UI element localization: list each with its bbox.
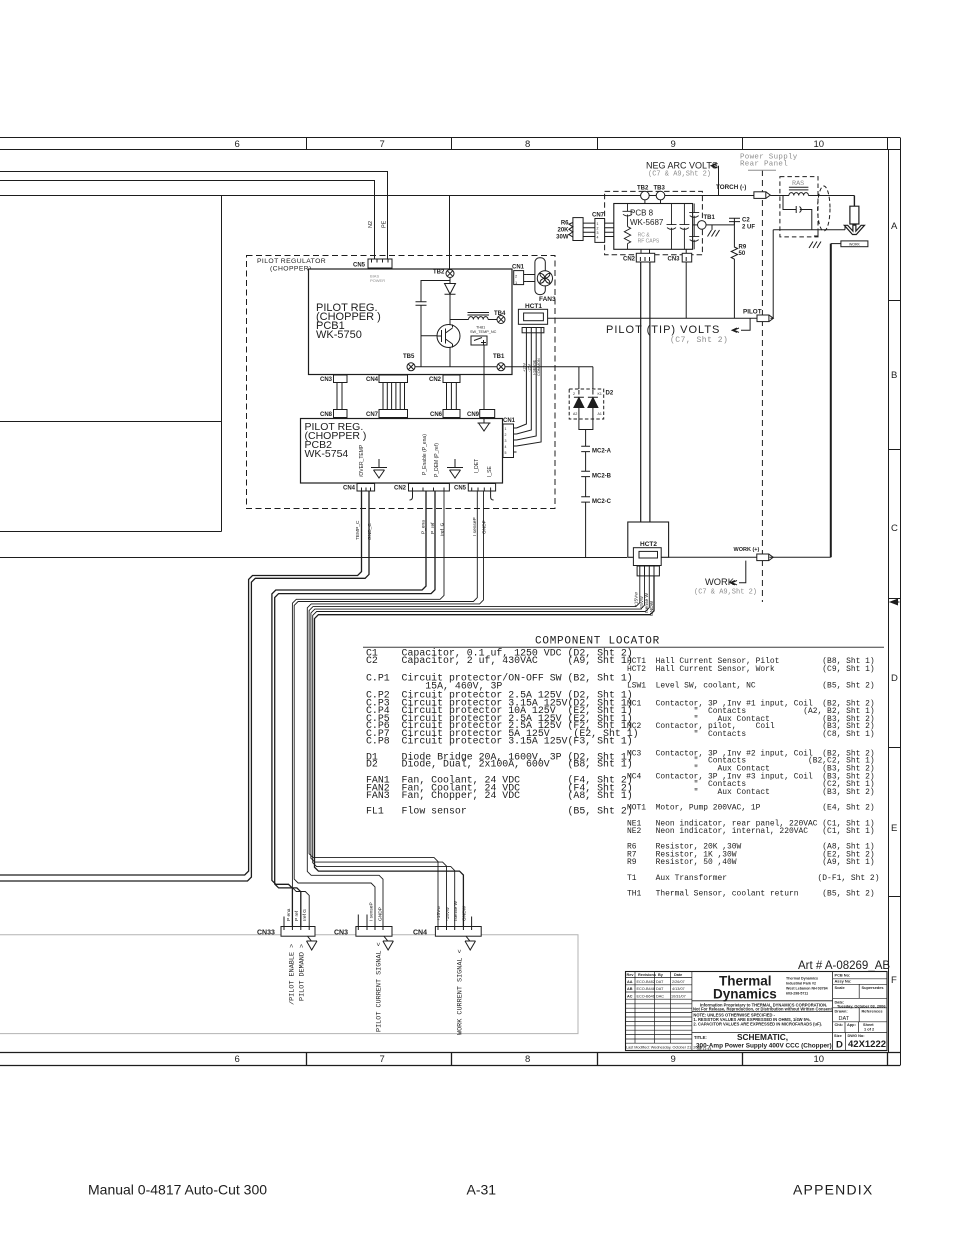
svg-text:10: 10 [814, 1054, 825, 1065]
frame: top zone strip [0, 138, 900, 150]
IGBT Q on PCB1 [437, 294, 469, 367]
svg-text:2/26/07: 2/26/07 [672, 980, 685, 984]
wire: pilot rail from HCT1 to rear panel [548, 317, 774, 319]
svg-text:9: 9 [671, 1054, 676, 1065]
terminal TB3 (PCB8) [656, 191, 665, 203]
zone numbers top [235, 139, 825, 150]
svg-text:Iref_G: Iref_G [440, 522, 446, 536]
svg-text:A: A [891, 221, 898, 232]
svg-text:WORK: WORK [849, 243, 861, 247]
svg-text:+15Vw: +15Vw [634, 592, 640, 607]
wire P_ref staircase to CN33 pin3 [275, 491, 435, 927]
svg-text:References: References [862, 1009, 883, 1014]
diode D2 (dual) dashed box [569, 389, 604, 419]
svg-text:ECO-B646: ECO-B646 [637, 995, 655, 999]
svg-text:TB2: TB2 [433, 270, 445, 276]
wire P_ena staircase to CN33 pin2 [272, 491, 426, 927]
wire: tip line to torch tip [844, 225, 846, 229]
svg-text:Assy No:: Assy No: [835, 979, 852, 984]
wire: TB5-TB1 bottom rail [415, 366, 593, 368]
svg-text:+15V: +15V [523, 363, 527, 372]
svg-text:2: 2 [505, 433, 507, 437]
svg-text:CN1: CN1 [503, 418, 516, 424]
svg-text:WORK CURRENT SIGNAL <: WORK CURRENT SIGNAL < [457, 949, 465, 1035]
svg-text:PILOT REGULATOR: PILOT REGULATOR [257, 258, 326, 265]
svg-text:3: 3 [505, 439, 507, 443]
svg-text:App:: App: [847, 1022, 856, 1027]
svg-text:WK-5750: WK-5750 [316, 329, 362, 341]
svg-text:B: B [891, 370, 897, 381]
svg-text:SW_TEMP_NC: SW_TEMP_NC [470, 330, 497, 334]
svg-text:RF CAPS: RF CAPS [638, 239, 660, 245]
svg-text:CN4: CN4 [413, 930, 427, 937]
svg-text:GND_C: GND_C [367, 523, 373, 540]
frame: right border columns [889, 138, 901, 1066]
svg-text:P_Enable (P_ena): P_Enable (P_ena) [422, 434, 428, 475]
svg-text:P ref: P ref [294, 910, 300, 921]
svg-text:2: 2 [573, 392, 575, 396]
svg-text:1: 1 [597, 222, 599, 226]
title block revisions table [626, 972, 692, 1051]
svg-text:Manual 0-4817 Auto-Cut 300: Manual 0-4817 Auto-Cut 300 [88, 1182, 267, 1198]
svg-text:CN2: CN2 [623, 257, 636, 263]
inductor in RAS [789, 187, 855, 195]
capacitor branch 4 (right edge) inside PCB8 [689, 204, 699, 250]
contact MC2-C [581, 497, 590, 558]
wire: work rail y557 from off-page left [0, 557, 627, 559]
node: big left box (off-page circuitry) [0, 196, 222, 532]
svg-text:CN2: CN2 [429, 377, 442, 383]
svg-text:Dynamics: Dynamics [713, 987, 777, 1002]
resistor R6 20K 30W [569, 218, 595, 241]
svg-text:PILOT CURRENT SIGNAL <: PILOT CURRENT SIGNAL < [376, 942, 384, 1032]
svg-text:CN5: CN5 [454, 486, 467, 492]
wire PE: left rail to CN5 [0, 172, 388, 260]
fan FAN3 [534, 258, 555, 295]
rear panel boundary (dashed) [761, 170, 763, 602]
svg-text:6: 6 [235, 139, 240, 150]
ground stub on tip line [809, 230, 821, 248]
svg-text:C2: C2 [742, 218, 750, 224]
wire Iref_G staircase to CN33 pin4 [292, 491, 444, 927]
wire: RAS bottom rail (pilot/tip) [773, 230, 845, 319]
wire +15Vw fold-around HCT2 to CN4 pin1 [309, 576, 640, 927]
svg-text:AA: AA [627, 980, 633, 984]
ground arrow below CN3 [383, 936, 394, 950]
svg-text:WORK (+): WORK (+) [734, 547, 760, 553]
wire: torch rail into RAS [770, 195, 789, 197]
wire: rail tap down to TB2 of PCB1 [449, 196, 451, 270]
zone letters right [891, 221, 898, 986]
ground arrow PCB2 left [371, 459, 387, 478]
svg-text:CN7: CN7 [592, 213, 605, 219]
wire: CN3 (PCB8) to pilot rail [685, 262, 687, 318]
svg-text:CN9: CN9 [467, 412, 480, 418]
svg-text:50: 50 [739, 251, 746, 257]
svg-text:PILOT (TIP) VOLTS: PILOT (TIP) VOLTS [606, 324, 720, 336]
svg-text:N2: N2 [368, 221, 374, 228]
terminal TB2 on PCB1 [446, 270, 454, 278]
svg-text:CN6: CN6 [430, 412, 443, 418]
connector CN7 PCB2 top [379, 410, 408, 418]
svg-text:P ena: P ena [286, 908, 292, 921]
svg-text:COMPONENT LOCATOR: COMPONENT LOCATOR [535, 636, 660, 648]
wires: TB1 rail taps down to D2 [579, 367, 593, 390]
svg-text:7: 7 [380, 139, 385, 150]
svg-text:CN2: CN2 [394, 486, 407, 492]
wire I_senseP fold-around to CN3 pin3 [294, 491, 477, 927]
svg-text:-15V: -15V [527, 364, 531, 372]
ground arrow below CN9 [478, 418, 491, 432]
svg-text:F: F [891, 975, 897, 986]
svg-text:(C7 & A9,Sht 2): (C7 & A9,Sht 2) [648, 171, 711, 179]
svg-text:E: E [891, 823, 897, 834]
svg-text:4: 4 [597, 236, 599, 240]
ground arrow below CN4 [465, 936, 476, 950]
zone numbers bottom [235, 1054, 825, 1065]
connector CN2 PCB1 bottom [443, 375, 460, 410]
svg-text:Thermal Dynamics: Thermal Dynamics [786, 977, 818, 981]
title block middle dividers [692, 972, 887, 1051]
svg-text:MC2-A: MC2-A [592, 449, 612, 455]
connector CN9 PCB2 top [480, 410, 495, 418]
ferrite ellipse (cable) [818, 186, 830, 231]
connector CN4 PCB2 bottom [357, 484, 375, 492]
connector CN5 on PCB1 top [368, 259, 392, 268]
svg-text:Last Modified: Wednesday, Oct: Last Modified: Wednesday, October 21, 20… [626, 1046, 702, 1050]
connector CN2 (PCB8 bottom) [636, 249, 654, 262]
svg-text:6: 6 [235, 1054, 240, 1065]
svg-text:GNDP: GNDP [378, 907, 384, 921]
svg-text:PILOT DEMAND >: PILOT DEMAND > [299, 944, 307, 1001]
wire Isense_W fold-around HCT2 to CN4 pin3 [313, 576, 650, 927]
svg-text:(C7, Sht 2): (C7, Sht 2) [670, 336, 728, 345]
svg-text:CN33: CN33 [257, 930, 275, 937]
svg-text:-15Vw: -15Vw [445, 907, 451, 921]
svg-text:Chk:: Chk: [835, 1022, 844, 1027]
svg-text:R9: R9 [739, 245, 747, 251]
svg-text:GNDW: GNDW [462, 905, 468, 921]
diode on PCB1 (TB2 branch) [445, 278, 456, 328]
svg-text:A2: A2 [573, 412, 577, 416]
hall sensor HCT1 [518, 309, 547, 333]
svg-text:P_DEM (P_ref): P_DEM (P_ref) [434, 443, 440, 477]
svg-text:300-Amp Power Supply 400V CCC: 300-Amp Power Supply 400V CCC (Chopper) [696, 1042, 832, 1049]
svg-text:AB: AB [627, 987, 633, 991]
svg-text:CN3: CN3 [320, 377, 333, 383]
svg-text:AC: AC [627, 995, 633, 999]
connector CN2 PCB2 bottom [409, 484, 450, 501]
wire: main torch(-) rail y195 [0, 195, 754, 197]
svg-text:3: 3 [597, 231, 599, 235]
svg-text:DAT: DAT [656, 980, 664, 984]
svg-text:TH81: TH81 [476, 326, 485, 330]
wire: TB1 to C2 branch [706, 224, 734, 226]
svg-text:Isense W: Isense W [453, 901, 459, 921]
svg-text:Scale: Scale [835, 985, 846, 990]
svg-text:PE: PE [382, 220, 388, 228]
svg-text:WK-5754: WK-5754 [305, 448, 349, 460]
svg-text:5: 5 [505, 451, 507, 455]
svg-text:Rear Panel: Rear Panel [740, 161, 788, 169]
svg-text:MC2-C: MC2-C [592, 499, 612, 505]
svg-text:NEG ARC VOLTS: NEG ARC VOLTS [646, 161, 718, 171]
svg-text:10: 10 [814, 139, 825, 150]
svg-text:30W: 30W [556, 235, 569, 241]
svg-text:(CHOPPER): (CHOPPER) [270, 266, 312, 273]
svg-text:Drawn:: Drawn: [835, 1009, 848, 1014]
svg-text:ECO-B448: ECO-B448 [637, 987, 655, 991]
connector CN3 (panel) [356, 915, 392, 937]
svg-text:4: 4 [505, 445, 507, 449]
wire GND_C (bold staircase, exits left) [0, 491, 369, 881]
svg-text:WORK: WORK [705, 577, 735, 587]
svg-text:Iref G: Iref G [302, 909, 308, 921]
terminal TB1 (PCB8) [692, 221, 706, 230]
inductor L on PCB1 [468, 313, 498, 320]
wire GNDP fold-around to CN3 pin4 [307, 491, 483, 927]
svg-text:D: D [836, 1039, 843, 1050]
terminal TB5 [407, 363, 415, 371]
connector CN3 PCB1 bottom [334, 375, 348, 410]
svg-text:TB1: TB1 [704, 215, 716, 221]
feedthrough PILOT [757, 315, 773, 322]
contact MC2-B [581, 471, 590, 496]
svg-text:PCB No:: PCB No: [835, 973, 851, 978]
svg-text:A-31: A-31 [467, 1182, 497, 1198]
svg-text:603-298-5711: 603-298-5711 [786, 992, 808, 996]
PCB1 WK-5750 board [309, 269, 513, 375]
svg-text:TB5: TB5 [403, 354, 415, 360]
connector CN5 PCB2 bottom [468, 484, 495, 501]
svg-text:TB3: TB3 [654, 186, 666, 192]
svg-text:Revisions: Revisions [638, 973, 656, 977]
wire: work stud vertical (bold) [830, 244, 832, 558]
wire -15Vw fold-around HCT2 to CN4 pin2 [311, 576, 645, 927]
gate capacitor on PCB1 [416, 281, 451, 367]
title block frame [626, 972, 888, 1051]
capacitor branch 3 inside PCB8 [679, 204, 689, 250]
ground at TB1 [708, 225, 720, 237]
ground arrow below CN33 [307, 936, 318, 950]
svg-text:COMMON: COMMON [537, 358, 541, 376]
connector CN4 (panel) [435, 917, 481, 937]
svg-text:TB2: TB2 [637, 186, 649, 192]
svg-text:1 of 2: 1 of 2 [864, 1027, 875, 1032]
svg-text:/PILOT ENABLE >: /PILOT ENABLE > [289, 944, 297, 1005]
ground arrow PCB2 mid [447, 459, 463, 478]
svg-text:Art # A-08269_AB: Art # A-08269_AB [798, 960, 890, 972]
svg-text:PILOT: PILOT [743, 309, 762, 316]
svg-text:D: D [891, 673, 898, 684]
svg-text:DAT: DAT [839, 1016, 850, 1022]
svg-text:(C7 & A9,Sht 2): (C7 & A9,Sht 2) [694, 589, 757, 597]
svg-text:I_DET: I_DET [474, 459, 480, 473]
hall sensor HCT2 [628, 522, 669, 557]
svg-text:TB4: TB4 [494, 311, 506, 317]
svg-text:CN5: CN5 [353, 263, 366, 269]
torch electrode symbol [844, 206, 864, 234]
feedthrough TORCH [754, 192, 770, 199]
filter RAS dashed box [780, 177, 818, 237]
connector CN7 (PCB8 left) [595, 219, 614, 243]
work lead plate [831, 241, 868, 247]
PCB8 WK-5687 board [614, 204, 693, 250]
wire TEMP_C (bold staircase, exits left) [0, 491, 362, 875]
feedthrough WORK (+) [757, 554, 773, 561]
svg-text:CN1: CN1 [512, 265, 525, 271]
wires CN1 to FAN3 [527, 275, 535, 282]
wires HCT1 to CN1 PCB2 [517, 333, 542, 446]
svg-text:20K: 20K [557, 228, 569, 234]
svg-text:CN4: CN4 [366, 377, 379, 383]
svg-text:Date: Date [674, 973, 682, 977]
svg-text:CN8: CN8 [320, 412, 333, 418]
svg-text:TB1: TB1 [493, 354, 505, 360]
svg-text:West Lebanon NH 03784: West Lebanon NH 03784 [786, 987, 828, 991]
svg-text:8: 8 [525, 1054, 530, 1065]
wires: CN2 (PCB8) to HCT2 work conductor pair [641, 262, 650, 522]
connector CN8 PCB2 top [334, 410, 348, 418]
svg-text:TEMP_C: TEMP_C [355, 520, 361, 540]
wire: torch electrode drop [853, 196, 855, 207]
svg-text:CN3: CN3 [668, 257, 681, 263]
svg-text:TITLE:: TITLE: [694, 1035, 707, 1040]
capacitor C2 2UF [729, 218, 740, 225]
svg-text:DWG No:: DWG No: [848, 1033, 865, 1038]
connector CN33 [281, 917, 315, 937]
frame: bottom zone strip [0, 1053, 900, 1066]
contact MC2-A [581, 446, 590, 471]
svg-text:HCT2: HCT2 [640, 541, 657, 548]
svg-text:TORCH (-): TORCH (-) [716, 184, 746, 191]
svg-text:CN4: CN4 [343, 486, 356, 492]
title block right column [833, 979, 887, 1051]
capacitor branch in RAS [783, 196, 812, 230]
capacitor branch 2 inside PCB8 [667, 204, 677, 250]
wire: work rail right of HCT2 [669, 556, 831, 558]
connector CN6 PCB2 top [443, 410, 460, 418]
resistor R9 50 [731, 222, 737, 319]
svg-text:42X1222: 42X1222 [848, 1039, 886, 1050]
wires: D2 outputs join [579, 419, 593, 446]
svg-text:Supersedes: Supersedes [862, 985, 884, 990]
terminal TB4 [497, 316, 505, 324]
svg-text:D2: D2 [606, 391, 614, 397]
diode D2 elements [574, 390, 598, 419]
svg-text:C: C [891, 523, 898, 534]
svg-text:Rev: Rev [627, 973, 635, 977]
wire GNDW fold-around HCT2 to CN4 pin4 (bold) [315, 576, 655, 927]
footer: manual text [88, 1182, 873, 1198]
svg-text:DAC: DAC [656, 995, 664, 999]
PCB2 WK-5754 board [301, 419, 503, 484]
wire N2: left rail to CN5 [0, 181, 375, 260]
svg-text:CN7: CN7 [366, 412, 379, 418]
connector CN1 PCB1 right [514, 271, 527, 285]
svg-text:/OVER_TEMP: /OVER_TEMP [359, 444, 365, 477]
svg-text:2: 2 [597, 227, 599, 231]
connector CN4 PCB1 bottom [379, 375, 408, 410]
svg-text:APPENDIX: APPENDIX [793, 1182, 873, 1198]
frame: centering arrow right edge [889, 599, 900, 606]
svg-text:R6: R6 [561, 221, 569, 227]
svg-text:GNDP: GNDP [482, 520, 488, 534]
svg-text:WK-5687: WK-5687 [630, 218, 664, 227]
svg-text:PCB 8: PCB 8 [630, 209, 654, 218]
svg-text:Size: Size [834, 1033, 843, 1038]
terminal TB1 (PCB1) [497, 363, 505, 371]
svg-text:DAT: DAT [656, 987, 664, 991]
svg-text:9: 9 [671, 139, 676, 150]
svg-text:Industrial Park #2: Industrial Park #2 [786, 982, 816, 986]
svg-text:POWER: POWER [370, 278, 385, 283]
svg-text:SCHEMATIC,: SCHEMATIC, [737, 1032, 788, 1042]
PCB8 dashed enclosure [605, 191, 703, 254]
svg-text:1: 1 [505, 427, 507, 431]
svg-text:+15Vw: +15Vw [436, 906, 442, 921]
svg-text:FAN3: FAN3 [539, 296, 556, 303]
capacitor/resistor branch 1 inside PCB8 [623, 204, 633, 250]
svg-text:CN3: CN3 [334, 930, 348, 937]
svg-text:MC2-B: MC2-B [592, 474, 612, 480]
svg-text:Not For Release, Reproduction,: Not For Release, Reproduction, or Distri… [693, 1007, 833, 1012]
svg-text:K1: K1 [598, 392, 602, 396]
svg-text:ECO-B482: ECO-B482 [637, 980, 655, 984]
svg-text:10/31/07: 10/31/07 [671, 995, 686, 999]
terminal TB2 (PCB8) [641, 191, 650, 203]
connector CN3 (PCB8 bottom) [682, 249, 692, 262]
svg-text:HCT1: HCT1 [525, 303, 542, 310]
svg-text:2 UF: 2 UF [742, 225, 755, 231]
connector CN1 PCB2 right [503, 424, 517, 458]
svg-text:8: 8 [525, 139, 530, 150]
svg-text:A1: A1 [598, 412, 602, 416]
svg-text:4/13/07: 4/13/07 [672, 987, 685, 991]
svg-text:I senseP: I senseP [369, 902, 375, 921]
pilot regulator dashed enclosure [247, 256, 556, 509]
svg-text:I-SENSE: I-SENSE [532, 359, 536, 375]
control region gray box [0, 935, 578, 1034]
svg-text:2. CAPACITOR VALUES ARE EXPRES: 2. CAPACITOR VALUES ARE EXPRESSED IN MIC… [693, 1021, 822, 1026]
svg-text:I_SE: I_SE [487, 465, 493, 477]
svg-text:7: 7 [380, 1054, 385, 1065]
